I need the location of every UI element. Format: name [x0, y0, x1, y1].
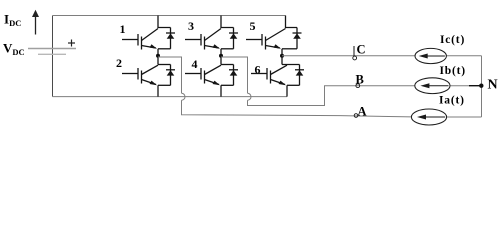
svg-text:N: N	[488, 78, 498, 93]
svg-text:6: 6	[255, 63, 261, 77]
diode D6	[295, 65, 304, 86]
svg-text:4: 4	[192, 57, 198, 71]
diode D1	[166, 28, 175, 49]
junction node N	[479, 84, 483, 88]
Idc direction arrow	[32, 10, 39, 35]
wire battery lead	[52, 16, 54, 97]
svg-text:IDC: IDC	[4, 12, 21, 29]
transistor Q6 emitter lead	[287, 84, 300, 86]
svg-text:2: 2	[116, 56, 122, 70]
svg-text:3: 3	[188, 19, 194, 33]
node B marker	[356, 84, 360, 88]
svg-text:Ic(t): Ic(t)	[440, 34, 465, 46]
junction leg3 phase node	[280, 54, 284, 58]
node A marker	[354, 114, 358, 118]
svg-text:Ib(t): Ib(t)	[440, 65, 466, 77]
svg-text:A: A	[358, 104, 367, 118]
transistor Q2 emitter lead	[158, 84, 171, 86]
wire phase C line	[282, 55, 416, 57]
svg-text:B: B	[356, 73, 364, 87]
wire neutral vertical	[481, 56, 483, 117]
wire positive rail	[53, 15, 286, 17]
transistor Q6 IGBT body	[251, 65, 287, 84]
node C marker	[353, 46, 357, 60]
svg-text:Ia(t): Ia(t)	[439, 95, 465, 107]
wire crossover hop at negative rail x247	[248, 93, 252, 100]
transistor Q2 IGBT body	[122, 65, 158, 84]
wire crossover hop at negative rail x181	[182, 93, 186, 100]
svg-text:VDC: VDC	[3, 41, 25, 58]
wire phase A line right of source	[446, 116, 482, 118]
transistor Q4 IGBT body	[185, 65, 221, 84]
wire emitter to negative rail	[157, 85, 159, 96]
transistor Q1 IGBT body	[122, 29, 158, 50]
battery plus sign	[68, 40, 75, 47]
current source Ic(t)	[415, 48, 446, 63]
junction leg1 phase node	[156, 54, 160, 58]
transistor Q5 collector lead	[286, 16, 298, 28]
transistor Q1 emitter lead	[158, 48, 171, 50]
wire phase A tap	[158, 57, 182, 93]
diode D5	[293, 28, 302, 49]
wire phase B link	[248, 86, 416, 106]
transistor Q3 emitter lead	[221, 48, 234, 50]
diode D3	[229, 28, 238, 49]
svg-text:5: 5	[250, 19, 256, 33]
wire leg3 midpoint	[281, 49, 283, 65]
wire leg2 midpoint	[220, 49, 222, 65]
diode D2	[166, 65, 175, 86]
wire leg1 midpoint	[157, 49, 159, 65]
DC source Vdc battery plates	[28, 49, 76, 55]
wire phase C right of source	[446, 55, 482, 57]
transistor Q6 collector lead	[282, 64, 300, 66]
wire emitter to negative rail	[220, 85, 222, 96]
transistor Q4 emitter lead	[221, 84, 234, 86]
wire phase A line	[182, 100, 412, 117]
junction leg2 phase node	[219, 54, 223, 58]
transistor Q3 collector lead	[221, 16, 234, 28]
current source Ia(t)	[411, 109, 446, 125]
diode D4	[229, 65, 238, 86]
wire to neutral N	[469, 85, 482, 87]
wire phase B tap	[221, 57, 248, 93]
svg-text:1: 1	[120, 22, 126, 36]
current source Ib(t)	[415, 78, 450, 94]
svg-text:C: C	[357, 43, 366, 57]
transistor Q3 IGBT body	[185, 29, 221, 50]
wire phase B right of source	[450, 85, 470, 87]
wire negative rail	[53, 96, 288, 98]
transistor Q4 collector lead	[221, 64, 234, 66]
transistor Q5 emitter lead	[282, 48, 297, 50]
transistor Q5 IGBT body	[246, 29, 286, 50]
transistor Q2 collector lead	[158, 64, 171, 66]
wire emitter to negative rail	[286, 85, 288, 96]
transistor Q1 collector lead	[158, 16, 171, 28]
